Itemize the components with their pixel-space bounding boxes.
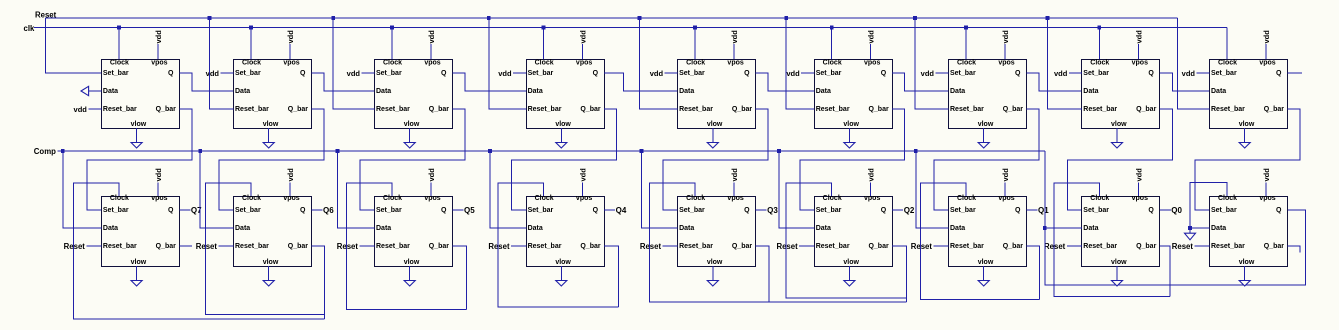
- ground vlow U5: [712, 128, 714, 143]
- power vdd at X9 vpos: [1265, 183, 1267, 197]
- svg-text:Q_bar: Q_bar: [1264, 106, 1285, 113]
- svg-text:Q_bar: Q_bar: [732, 243, 753, 250]
- svg-text:vlow: vlow: [1111, 121, 1127, 128]
- svg-text:Reset_bar: Reset_bar: [376, 106, 410, 113]
- svg-text:vdd: vdd: [921, 69, 935, 78]
- svg-text:Reset: Reset: [640, 242, 662, 251]
- svg-text:Clock: Clock: [957, 195, 976, 202]
- wire Comp to X4 Data: [490, 151, 526, 228]
- svg-text:vlow: vlow: [1239, 259, 1255, 266]
- svg-text:vdd: vdd: [579, 168, 588, 182]
- svg-text:Set_bar: Set_bar: [1211, 70, 1237, 77]
- svg-text:Set_bar: Set_bar: [816, 70, 842, 77]
- svg-text:Q_bar: Q_bar: [429, 243, 450, 250]
- svg-text:Q_bar: Q_bar: [156, 106, 177, 113]
- svg-text:Q_bar: Q_bar: [288, 243, 309, 250]
- svg-text:vlow: vlow: [555, 259, 571, 266]
- power vdd at X8 vpos: [1137, 183, 1139, 197]
- svg-text:vdd: vdd: [1001, 168, 1010, 182]
- svg-text:vpos: vpos: [424, 60, 440, 67]
- svg-text:Q_bar: Q_bar: [580, 243, 601, 250]
- power vdd at U7 vpos: [1004, 44, 1006, 59]
- svg-text:Data: Data: [235, 225, 250, 232]
- ground vlow X8: [1116, 266, 1118, 281]
- svg-text:Reset: Reset: [196, 242, 218, 251]
- junction Reset at x=488.8: [487, 16, 491, 20]
- svg-text:Q1: Q1: [1038, 206, 1049, 215]
- wire Reset to U7 Reset_bar: [915, 18, 949, 109]
- ground vlow X9: [1244, 266, 1246, 281]
- svg-text:vdd: vdd: [427, 30, 436, 44]
- svg-text:vlow: vlow: [263, 121, 279, 128]
- svg-text:vdd: vdd: [206, 69, 220, 78]
- svg-text:Clock: Clock: [242, 60, 261, 67]
- flip-flop U6 (top row bit 2) box: [815, 60, 893, 129]
- svg-text:Q_bar: Q_bar: [429, 106, 450, 113]
- wire clk to U3 Clock pin: [391, 28, 393, 60]
- junction Reset at x=639.4: [638, 16, 642, 20]
- svg-text:vlow: vlow: [404, 121, 420, 128]
- wire Reset to U2 Reset_bar: [210, 18, 234, 109]
- junction clk at U1: [117, 26, 121, 30]
- junction Comp at x=200.2: [198, 149, 202, 153]
- svg-text:vlow: vlow: [131, 259, 147, 266]
- ground vlow U2: [268, 128, 270, 143]
- wire port to X9 Data and Clock: [1190, 183, 1227, 234]
- svg-text:Reset_bar: Reset_bar: [950, 243, 984, 250]
- svg-text:Q: Q: [593, 70, 599, 77]
- svg-text:Reset: Reset: [1172, 242, 1194, 251]
- wire Reset to U3 Reset_bar: [333, 18, 374, 109]
- svg-text:Q_bar: Q_bar: [732, 106, 753, 113]
- flip-flop U4 (top row bit 4) box: [527, 60, 605, 129]
- svg-text:vdd: vdd: [1262, 30, 1271, 44]
- svg-text:Set_bar: Set_bar: [103, 207, 129, 214]
- wire U5 Q to U6 Data: [756, 73, 815, 91]
- wire X5 Q stub: [756, 209, 767, 211]
- svg-text:Clock: Clock: [1218, 195, 1237, 202]
- svg-text:vpos: vpos: [1132, 60, 1148, 67]
- svg-text:Clock: Clock: [1090, 60, 1109, 67]
- junction X9 Data: [1188, 226, 1192, 230]
- svg-text:Q: Q: [1015, 207, 1021, 214]
- wire X1 Q_bar stub: [179, 245, 192, 247]
- svg-text:vpos: vpos: [576, 60, 592, 67]
- flip-flop U2 (top row bit 6) box: [234, 60, 312, 129]
- svg-text:Data: Data: [816, 225, 831, 232]
- svg-text:vpos: vpos: [424, 195, 440, 202]
- wire U8 Q_bar to X8 Set_bar: [1067, 109, 1172, 210]
- svg-text:vlow: vlow: [263, 259, 279, 266]
- wire U3 Q_bar to X3 Set_bar: [360, 109, 465, 210]
- svg-text:Data: Data: [950, 225, 965, 232]
- junction Comp at x=62.8: [61, 149, 65, 153]
- svg-text:Q_bar: Q_bar: [1264, 243, 1285, 250]
- svg-text:vdd: vdd: [650, 69, 664, 78]
- svg-text:Data: Data: [1211, 88, 1226, 95]
- svg-text:Q_bar: Q_bar: [580, 106, 601, 113]
- wire X1 Q stub: [179, 209, 190, 211]
- svg-text:Set_bar: Set_bar: [816, 207, 842, 214]
- svg-text:Reset_bar: Reset_bar: [1211, 243, 1245, 250]
- svg-text:Q: Q: [441, 70, 447, 77]
- svg-text:Set_bar: Set_bar: [376, 207, 402, 214]
- wire U7 Q_bar to X7 Set_bar: [934, 109, 1039, 210]
- svg-text:Reset: Reset: [911, 242, 933, 251]
- wire U6 Q_bar to X6 Set_bar: [800, 109, 905, 210]
- svg-text:vlow: vlow: [555, 121, 571, 128]
- svg-text:Clock: Clock: [383, 195, 402, 202]
- svg-text:Clock: Clock: [383, 60, 402, 67]
- flip-flop X2 (bottom row bit 6) box: [234, 197, 312, 267]
- svg-text:vdd: vdd: [867, 30, 876, 44]
- junction Comp at x=779.1: [777, 149, 781, 153]
- wire U6 Q to U7 Data: [892, 73, 948, 91]
- svg-text:vpos: vpos: [151, 60, 167, 67]
- power vdd at U2 vpos: [289, 44, 291, 59]
- svg-text:vpos: vpos: [727, 195, 743, 202]
- svg-text:vpos: vpos: [998, 60, 1014, 67]
- svg-text:vdd: vdd: [498, 69, 512, 78]
- flip-flop X1 (bottom row bit 7) box: [102, 197, 180, 267]
- svg-text:vlow: vlow: [707, 121, 723, 128]
- svg-text:Clock: Clock: [535, 60, 554, 67]
- svg-text:vdd: vdd: [1134, 30, 1143, 44]
- wire X6 Q_bar stub: [892, 246, 906, 302]
- wire X2 Q stub: [312, 209, 323, 211]
- svg-text:Reset_bar: Reset_bar: [1083, 106, 1117, 113]
- wire Reset to U8 Reset_bar: [1047, 18, 1081, 109]
- junction X8 Data: [1043, 226, 1047, 230]
- ground vlow X4: [560, 266, 562, 281]
- power vdd at U9 vpos: [1265, 44, 1267, 59]
- flip-flop U1 (top row bit 7) box: [102, 60, 180, 129]
- svg-text:Reset_bar: Reset_bar: [103, 243, 137, 250]
- power vdd at X4 vpos: [582, 183, 584, 197]
- svg-text:vpos: vpos: [864, 195, 880, 202]
- wire X2 Clock rail: [206, 183, 325, 314]
- svg-text:Set_bar: Set_bar: [528, 207, 554, 214]
- power vdd at X2 vpos: [289, 183, 291, 197]
- svg-text:Q_bar: Q_bar: [1136, 106, 1157, 113]
- wire Reset horizontal line: [46, 17, 1178, 19]
- svg-text:Clock: Clock: [823, 60, 842, 67]
- wire clk to U7 Clock pin: [965, 28, 967, 60]
- svg-text:Reset_bar: Reset_bar: [376, 243, 410, 250]
- wire Reset to FF1 Set_bar: [46, 18, 102, 73]
- wire X8 Clock rail: [1054, 183, 1170, 296]
- svg-text:Clock: Clock: [535, 195, 554, 202]
- junction clk at U2: [249, 26, 253, 30]
- wire X7 Q_bar stub: [1027, 246, 1040, 299]
- svg-text:Reset_bar: Reset_bar: [679, 243, 713, 250]
- svg-text:vlow: vlow: [843, 121, 859, 128]
- power vdd at X6 vpos: [870, 183, 872, 197]
- flip-flop U5 (top row bit 3) box: [678, 60, 756, 129]
- svg-text:Data: Data: [103, 225, 118, 232]
- svg-text:Q: Q: [744, 70, 750, 77]
- svg-text:Q_bar: Q_bar: [868, 106, 889, 113]
- wire U9 Q stub: [1288, 72, 1303, 74]
- junction Comp at x=641.6: [640, 149, 644, 153]
- svg-text:Reset: Reset: [64, 242, 86, 251]
- svg-text:vpos: vpos: [283, 195, 299, 202]
- svg-text:vdd: vdd: [154, 168, 163, 182]
- junction Reset at x=209.5: [208, 16, 212, 20]
- svg-text:Data: Data: [376, 225, 391, 232]
- svg-text:Reset_bar: Reset_bar: [816, 243, 850, 250]
- wire Comp to X5 Data: [642, 151, 678, 228]
- wire clk horizontal line: [34, 27, 1227, 29]
- wire clk to U4 Clock pin: [543, 28, 545, 60]
- svg-text:Q: Q: [168, 207, 174, 214]
- svg-text:vdd: vdd: [867, 168, 876, 182]
- flip-flop X5 (bottom row bit 3) box: [678, 197, 756, 267]
- flip-flop X7 (bottom row bit 1) box: [949, 197, 1027, 267]
- wire clk to U8 Clock pin: [1098, 28, 1100, 60]
- wire Comp to X2 Data: [200, 151, 233, 228]
- svg-text:Q: Q: [300, 207, 306, 214]
- wire X7 Clock rail: [921, 183, 1040, 299]
- wire X4 Q_bar stub: [604, 246, 618, 307]
- wire X4 Clock rail: [498, 183, 618, 307]
- power vdd at U3 vpos: [430, 44, 432, 59]
- wire X2 Q_bar stub: [312, 246, 325, 319]
- junction clk at U6: [830, 26, 834, 30]
- ground vlow U3: [409, 128, 411, 143]
- svg-text:vdd: vdd: [154, 30, 163, 44]
- svg-text:vdd: vdd: [1001, 30, 1010, 44]
- svg-text:Q: Q: [881, 207, 887, 214]
- svg-text:vlow: vlow: [1111, 259, 1127, 266]
- svg-text:Data: Data: [528, 88, 543, 95]
- svg-text:Set_bar: Set_bar: [679, 70, 705, 77]
- junction clk at U7: [964, 26, 968, 30]
- wire Comp to X1 Data: [63, 151, 102, 228]
- svg-text:vdd: vdd: [1134, 168, 1143, 182]
- ground vlow X5: [712, 266, 714, 281]
- ground vlow X1: [136, 266, 138, 281]
- svg-text:Data: Data: [679, 225, 694, 232]
- svg-text:Set_bar: Set_bar: [103, 70, 129, 77]
- wire Reset to U9 Reset_bar: [1177, 18, 1209, 109]
- svg-text:Set_bar: Set_bar: [950, 70, 976, 77]
- svg-text:Clock: Clock: [110, 195, 129, 202]
- svg-text:Set_bar: Set_bar: [1211, 207, 1237, 214]
- svg-text:Set_bar: Set_bar: [950, 207, 976, 214]
- power vdd at U6 vpos: [870, 44, 872, 59]
- wire U1 Q_bar to X1 Set_bar: [87, 109, 192, 210]
- svg-text:Comp: Comp: [34, 147, 56, 156]
- wire Comp to X6 Data: [779, 151, 814, 228]
- svg-text:vlow: vlow: [978, 259, 994, 266]
- svg-text:Reset_bar: Reset_bar: [235, 106, 269, 113]
- svg-text:Data: Data: [1211, 225, 1226, 232]
- flip-flop X4 (bottom row bit 4) box: [527, 197, 605, 267]
- svg-text:Q: Q: [1276, 70, 1282, 77]
- svg-text:clk: clk: [24, 24, 36, 33]
- svg-text:vlow: vlow: [843, 259, 859, 266]
- wire clk to U2 Clock pin: [250, 28, 252, 60]
- ground vlow U7: [983, 128, 985, 143]
- wire Comp end to X8 Data and X9 Q: [1045, 151, 1306, 285]
- svg-text:Set_bar: Set_bar: [376, 70, 402, 77]
- flip-flop U9 (top row bit -1) box: [1210, 60, 1288, 129]
- svg-text:vdd: vdd: [786, 69, 800, 78]
- svg-text:Q_bar: Q_bar: [1136, 243, 1157, 250]
- svg-text:Reset: Reset: [488, 242, 510, 251]
- wire clk to U5 Clock pin: [694, 28, 696, 60]
- wire X5 Q_bar stub: [756, 246, 769, 302]
- wire X3 Q_bar stub: [453, 246, 467, 310]
- svg-text:Q2: Q2: [904, 206, 915, 215]
- wire X5 Clock rail: [650, 183, 907, 302]
- svg-text:Reset_bar: Reset_bar: [679, 106, 713, 113]
- ground vlow U8: [1116, 128, 1118, 143]
- svg-text:vdd: vdd: [74, 105, 88, 114]
- svg-text:vdd: vdd: [1182, 69, 1196, 78]
- power vdd at U8 vpos: [1137, 44, 1139, 59]
- svg-text:Q: Q: [300, 70, 306, 77]
- wire X8 Q stub: [1160, 209, 1171, 211]
- wire U8 Q to U9 Data: [1160, 73, 1210, 91]
- svg-text:Clock: Clock: [686, 195, 705, 202]
- svg-text:Clock: Clock: [686, 60, 705, 67]
- power vdd at U1 vpos: [157, 44, 159, 59]
- wire Comp to X3 Data: [337, 151, 374, 228]
- svg-text:Data: Data: [816, 88, 831, 95]
- wire X8 Q_bar stub: [1160, 246, 1170, 297]
- wire clk to U9 Clock pin: [1226, 28, 1228, 60]
- wire U5 Q_bar to X5 Set_bar: [663, 109, 768, 210]
- wire Comp horizontal line: [58, 150, 1045, 152]
- wire X6 Clock rail: [786, 183, 906, 298]
- wire U2 Q_bar to X2 Set_bar: [219, 109, 324, 210]
- svg-text:Set_bar: Set_bar: [235, 207, 261, 214]
- svg-text:Data: Data: [679, 88, 694, 95]
- wire Reset to U6 Reset_bar: [786, 18, 814, 109]
- ground vlow X6: [848, 266, 850, 281]
- wire U7 Q to U8 Data: [1027, 73, 1082, 91]
- wire Comp to X7 Data: [916, 151, 949, 228]
- wire Reset to U5 Reset_bar: [639, 18, 677, 109]
- svg-text:Q4: Q4: [616, 206, 627, 215]
- svg-text:Q: Q: [441, 207, 447, 214]
- port input arrow down at X9 Data: [1185, 233, 1196, 240]
- wire X9 Q_bar stub: [1288, 246, 1300, 252]
- svg-text:vdd: vdd: [347, 69, 361, 78]
- svg-text:Data: Data: [1083, 88, 1098, 95]
- svg-text:Reset_bar: Reset_bar: [235, 243, 269, 250]
- power vdd at X1 vpos: [157, 183, 159, 197]
- svg-text:Data: Data: [1083, 225, 1098, 232]
- svg-text:vdd: vdd: [1262, 168, 1271, 182]
- flip-flop U7 (top row bit 1) box: [949, 60, 1027, 129]
- wire X3 Clock rail: [347, 183, 467, 309]
- junction clk at U8: [1097, 26, 1101, 30]
- svg-text:Reset_bar: Reset_bar: [103, 106, 137, 113]
- flip-flop U8 (top row bit 0) box: [1082, 60, 1160, 129]
- wire X3 Q stub: [453, 209, 464, 211]
- svg-text:vpos: vpos: [283, 60, 299, 67]
- wire U1 Q to U2 Data: [179, 73, 233, 91]
- svg-text:Data: Data: [103, 88, 118, 95]
- svg-text:vdd: vdd: [579, 30, 588, 44]
- svg-text:Set_bar: Set_bar: [1083, 207, 1109, 214]
- wire clk to U1 Clock pin: [118, 28, 120, 60]
- svg-text:Reset_bar: Reset_bar: [528, 106, 562, 113]
- junction Comp at x=915.8: [914, 149, 918, 153]
- svg-text:vlow: vlow: [707, 259, 723, 266]
- power vdd at U4 vpos: [582, 44, 584, 59]
- svg-text:Q_bar: Q_bar: [868, 243, 889, 250]
- ground vlow U1: [136, 128, 138, 143]
- ground vlow U6: [848, 128, 850, 143]
- svg-text:Q_bar: Q_bar: [1003, 243, 1024, 250]
- wire U3 Q to U4 Data: [453, 73, 527, 91]
- svg-text:Reset: Reset: [337, 242, 359, 251]
- svg-text:Set_bar: Set_bar: [235, 70, 261, 77]
- power vdd at X3 vpos: [430, 183, 432, 197]
- wire U4 Q to U5 Data: [604, 73, 678, 91]
- svg-text:vpos: vpos: [1259, 195, 1275, 202]
- wire clk to U6 Clock pin: [831, 28, 833, 60]
- ground vlow U9: [1244, 128, 1246, 143]
- ground vlow X3: [409, 266, 411, 281]
- svg-text:Set_bar: Set_bar: [1083, 70, 1109, 77]
- svg-text:Clock: Clock: [957, 60, 976, 67]
- flip-flop U3 (top row bit 5) box: [375, 60, 453, 129]
- svg-text:vpos: vpos: [864, 60, 880, 67]
- svg-text:vdd: vdd: [286, 30, 295, 44]
- svg-text:Set_bar: Set_bar: [528, 70, 554, 77]
- junction clk at U4: [542, 26, 546, 30]
- svg-text:Clock: Clock: [823, 195, 842, 202]
- wire X7 Q stub: [1027, 209, 1038, 211]
- ground vlow X2: [268, 266, 270, 281]
- svg-text:vpos: vpos: [1259, 60, 1275, 67]
- svg-text:vlow: vlow: [978, 121, 994, 128]
- svg-text:Clock: Clock: [1090, 195, 1109, 202]
- flip-flop X6 (bottom row bit 2) box: [815, 197, 893, 267]
- svg-text:Clock: Clock: [110, 60, 129, 67]
- svg-text:vlow: vlow: [131, 121, 147, 128]
- svg-text:vpos: vpos: [998, 195, 1014, 202]
- flip-flop X8 (bottom row bit 0) box: [1082, 197, 1160, 267]
- power vdd at X5 vpos: [733, 183, 735, 197]
- wire U4 Q_bar to X4 Set_bar: [512, 109, 617, 210]
- flip-flop X3 (bottom row bit 5) box: [375, 197, 453, 267]
- svg-text:Q_bar: Q_bar: [1003, 106, 1024, 113]
- junction Comp at x=337.4: [336, 149, 340, 153]
- svg-text:vpos: vpos: [576, 195, 592, 202]
- wire X6 Q stub: [892, 209, 903, 211]
- junction Reset at x=333.2: [331, 16, 335, 20]
- power vdd at X7 vpos: [1004, 183, 1006, 197]
- svg-text:vdd: vdd: [1054, 69, 1068, 78]
- svg-text:vpos: vpos: [1132, 195, 1148, 202]
- svg-text:vdd: vdd: [730, 168, 739, 182]
- svg-text:vdd: vdd: [286, 168, 295, 182]
- svg-text:Q: Q: [1148, 207, 1154, 214]
- svg-text:Data: Data: [950, 88, 965, 95]
- svg-text:Data: Data: [528, 225, 543, 232]
- flip-flop X9 (bottom row bit -1) box: [1210, 197, 1288, 267]
- ground vlow X7: [983, 266, 985, 281]
- svg-text:vlow: vlow: [1239, 121, 1255, 128]
- svg-text:vdd: vdd: [730, 30, 739, 44]
- svg-text:Data: Data: [235, 88, 250, 95]
